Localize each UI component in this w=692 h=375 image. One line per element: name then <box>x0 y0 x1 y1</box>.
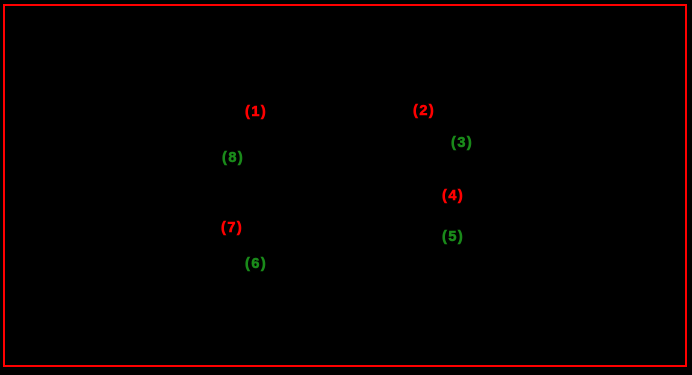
node (7) <box>221 221 243 235</box>
node (3) <box>451 136 473 150</box>
node (2) <box>413 104 435 118</box>
node (1) <box>245 105 267 119</box>
node (8) <box>222 151 244 165</box>
node (5) <box>442 230 464 244</box>
node (4) <box>442 189 464 203</box>
node (6) <box>245 257 267 271</box>
